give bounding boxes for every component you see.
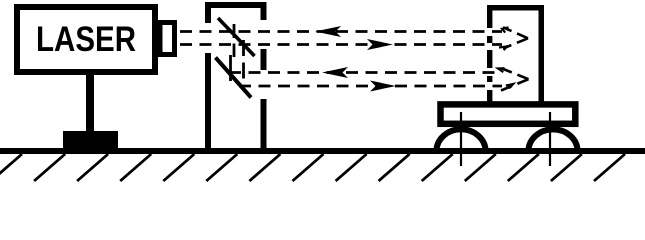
svg-text:LASER: LASER [36, 20, 136, 59]
